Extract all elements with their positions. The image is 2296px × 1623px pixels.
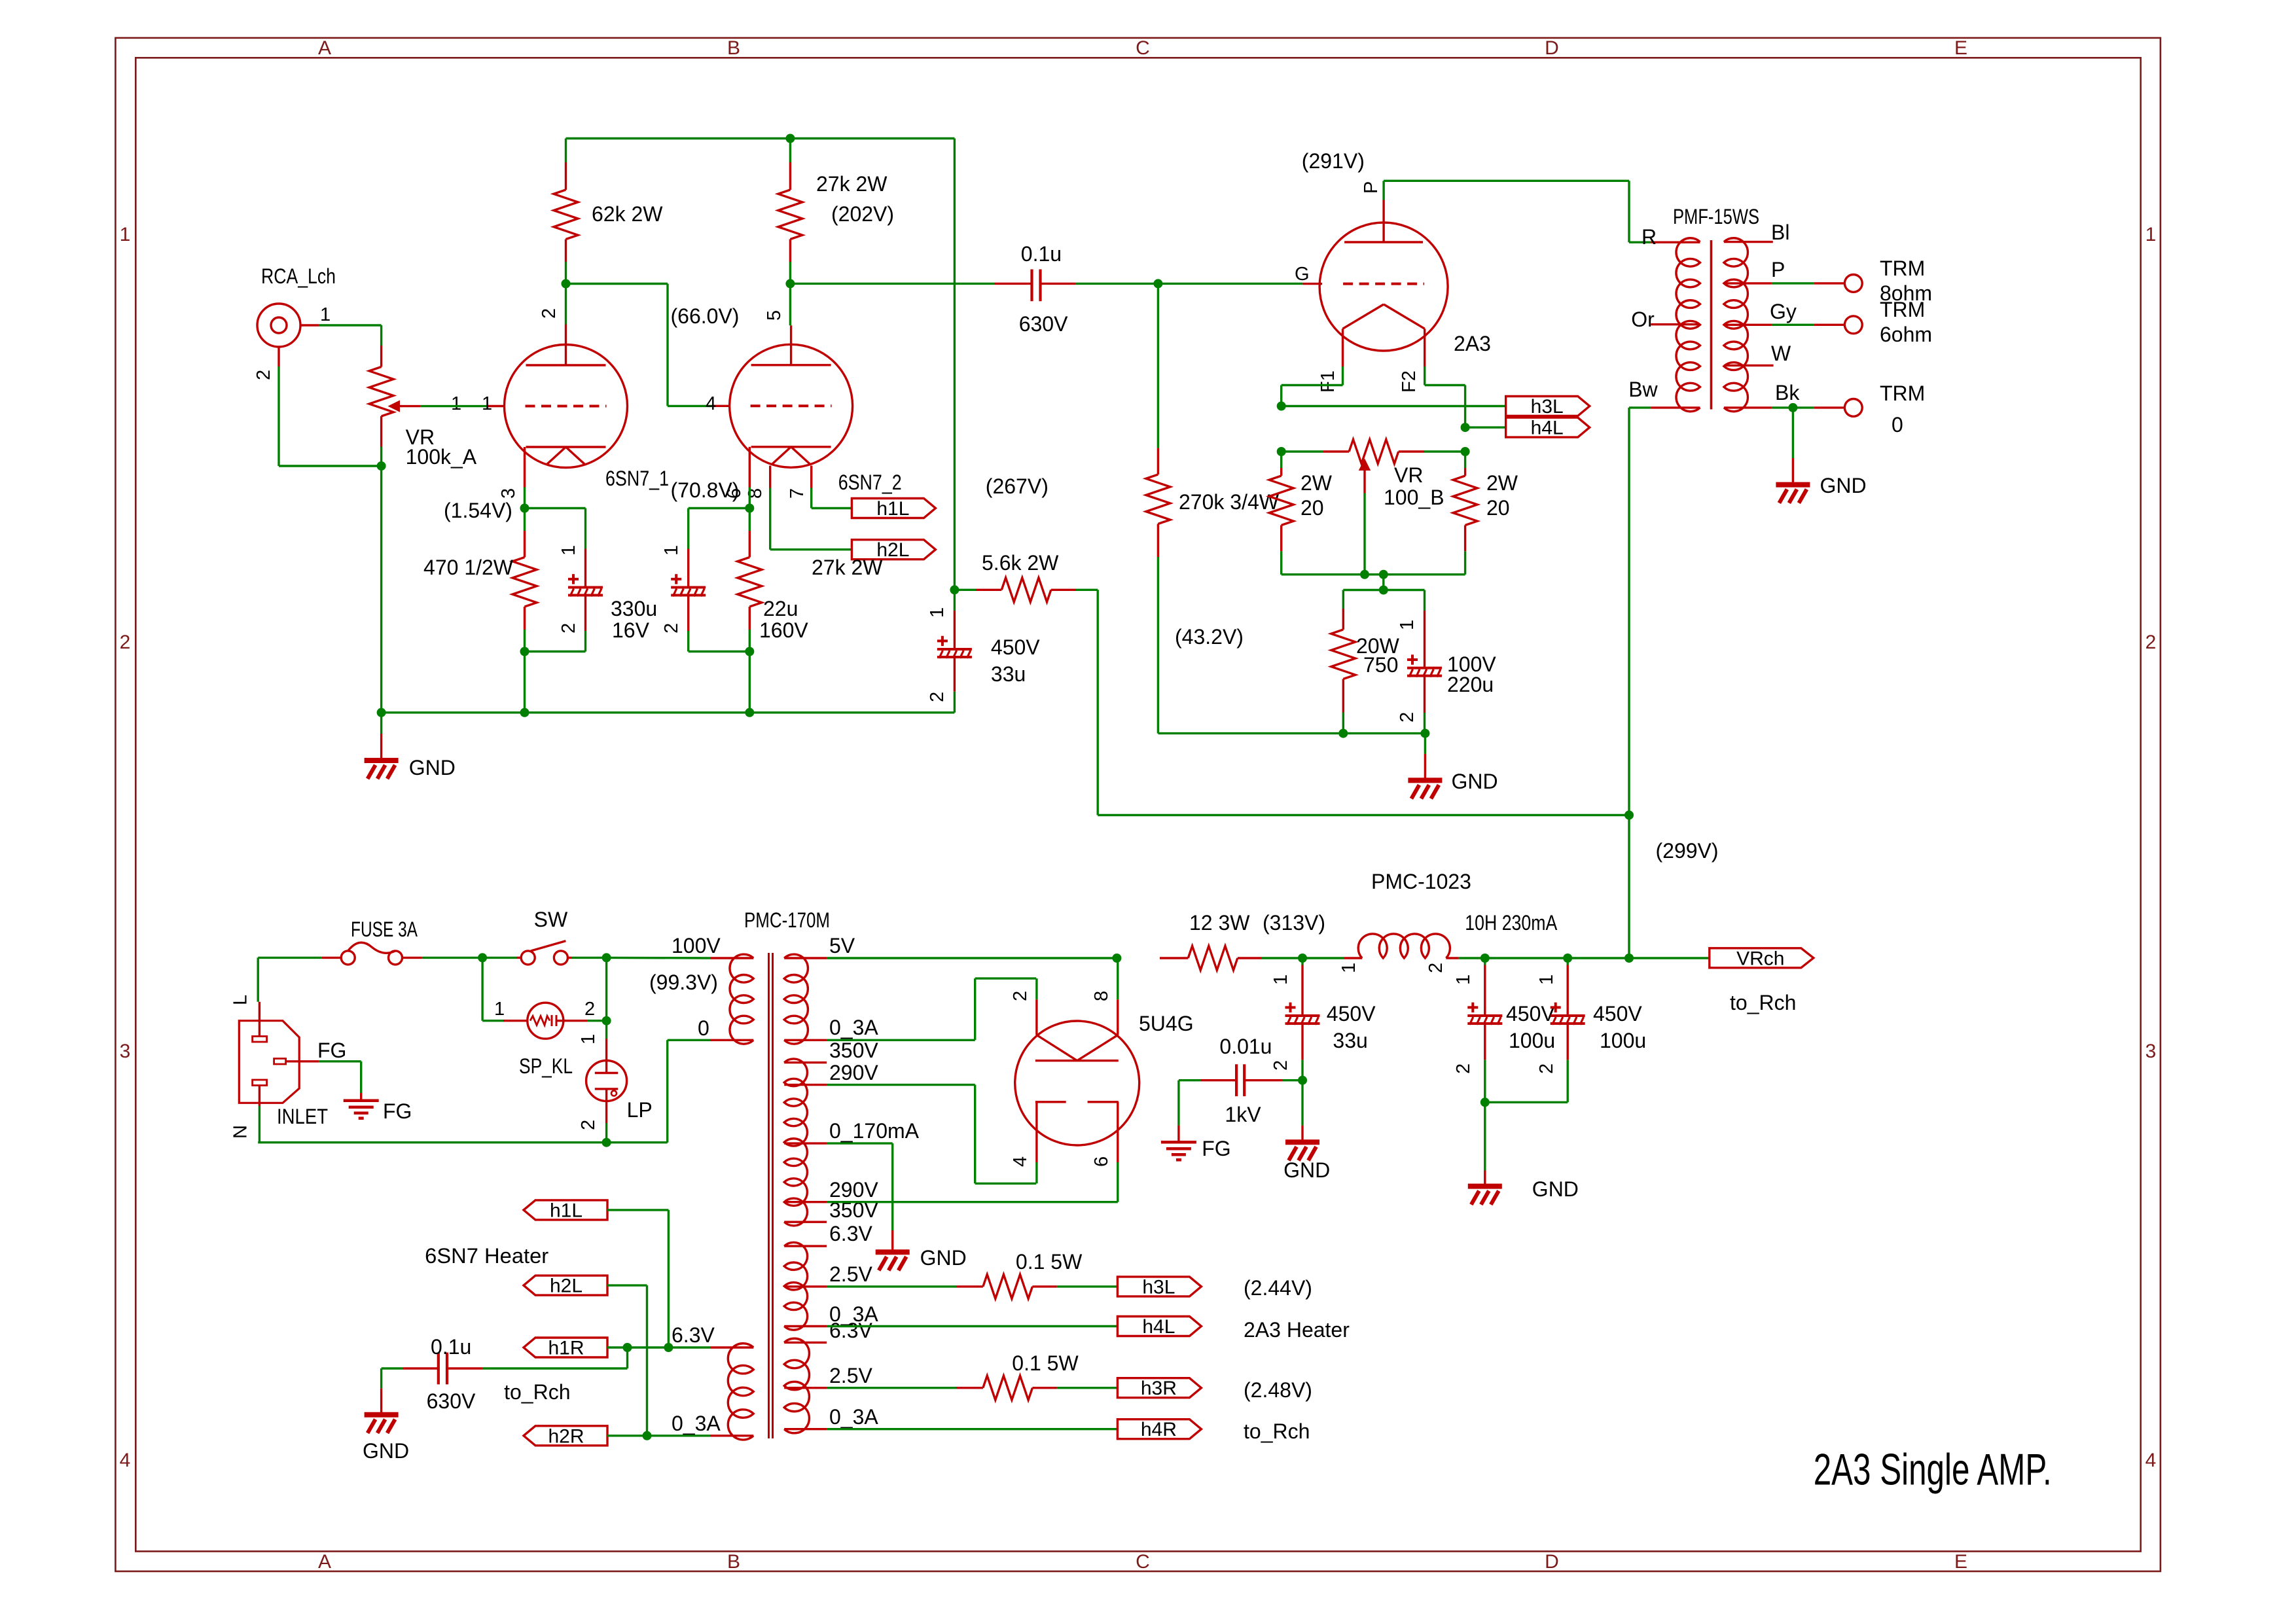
svg-text:Bw: Bw — [1628, 378, 1658, 401]
svg-text:h4L: h4L — [1142, 1316, 1175, 1338]
svg-text:FG: FG — [383, 1099, 412, 1123]
svg-text:(313V): (313V) — [1263, 911, 1325, 935]
wire to h3L — [1282, 405, 1506, 407]
svg-text:TRM: TRM — [1880, 257, 1925, 280]
svg-text:GND: GND — [1283, 1158, 1330, 1182]
wire SPKL branch — [482, 957, 503, 1020]
svg-text:SW: SW — [534, 908, 568, 931]
svg-text:1: 1 — [1338, 963, 1359, 973]
svg-text:Bk: Bk — [1775, 381, 1800, 404]
svg-text:B: B — [727, 37, 740, 59]
capacitor 330u 16V — [525, 508, 658, 652]
svg-text:FG: FG — [1202, 1137, 1230, 1160]
node 33u bottom — [1298, 1076, 1307, 1085]
tube 6SN7_2 — [706, 310, 902, 499]
wire RCA pin2 down — [279, 366, 382, 466]
wire plate1 to 6SN7_2 grid — [566, 284, 713, 406]
svg-text:G: G — [1295, 264, 1310, 285]
wire 5.6k to 299V node — [1098, 590, 1629, 815]
svg-text:33u: 33u — [1333, 1029, 1367, 1052]
tube 5U4G — [1010, 991, 1194, 1167]
port VRch out — [1710, 948, 1814, 969]
svg-text:62k 2W: 62k 2W — [592, 202, 663, 226]
wire 6SN7_2 plate pin — [789, 283, 791, 325]
svg-text:h1L: h1L — [876, 498, 909, 520]
svg-text:1: 1 — [320, 304, 331, 325]
svg-text:6.3V: 6.3V — [672, 1323, 715, 1347]
connector RCA_Lch — [253, 264, 336, 380]
svg-text:330u: 330u — [611, 597, 657, 620]
wire LP to N — [602, 1123, 611, 1147]
svg-text:GND: GND — [363, 1439, 409, 1463]
svg-text:h2R: h2R — [548, 1425, 584, 1447]
svg-text:450V: 450V — [991, 635, 1040, 659]
resistor 27k 2W plate — [778, 139, 894, 284]
svg-text:2: 2 — [1397, 712, 1418, 722]
svg-text:h1R: h1R — [548, 1338, 584, 1359]
ground GND filter — [1468, 1102, 1579, 1204]
lamp LP — [578, 1034, 653, 1130]
svg-text:1: 1 — [1453, 974, 1474, 985]
svg-text:LP: LP — [627, 1098, 653, 1122]
svg-text:to_Rch: to_Rch — [1244, 1419, 1310, 1443]
ground GND Rch cap — [363, 1368, 409, 1463]
svg-text:12 3W: 12 3W — [1189, 911, 1250, 935]
capacitor 33u 450V driver — [927, 590, 1040, 713]
resistor 470 1/2W cathode — [423, 508, 537, 652]
ground GND bias — [1408, 734, 1498, 799]
svg-text:6ohm: 6ohm — [1880, 323, 1932, 346]
label (43.2V) — [1175, 625, 1244, 649]
svg-text:0: 0 — [1892, 413, 1903, 437]
wire P lead to TRM 8ohm — [1724, 258, 1845, 283]
winding 5V rectifier — [784, 934, 878, 1044]
terminal TRM 6ohm — [1844, 298, 1932, 346]
svg-text:Bl: Bl — [1771, 221, 1789, 244]
svg-text:GND: GND — [409, 756, 456, 779]
svg-text:6.3V: 6.3V — [829, 1319, 872, 1342]
svg-text:GND: GND — [1452, 770, 1498, 793]
svg-text:0_3A: 0_3A — [829, 1016, 878, 1039]
svg-text:3: 3 — [120, 1041, 131, 1062]
svg-text:750: 750 — [1363, 653, 1398, 677]
svg-text:Gy: Gy — [1770, 300, 1797, 323]
svg-text:1: 1 — [661, 545, 682, 556]
wire choke out rail — [1480, 954, 1710, 963]
svg-text:L: L — [230, 995, 251, 1005]
svg-text:to_Rch: to_Rch — [504, 1380, 570, 1404]
label (66.0V) — [671, 304, 740, 328]
wire 0_170mA center tap — [827, 1143, 893, 1230]
svg-text:F1: F1 — [1318, 370, 1338, 393]
svg-text:470 1/2W: 470 1/2W — [423, 556, 514, 579]
svg-text:C: C — [1136, 1551, 1150, 1573]
svg-text:6: 6 — [1091, 1156, 1112, 1167]
svg-text:0_170mA: 0_170mA — [829, 1119, 920, 1143]
svg-text:Or: Or — [1631, 308, 1655, 331]
svg-text:6SN7_2: 6SN7_2 — [838, 471, 902, 494]
wire 0_3A to pin2 — [827, 978, 1037, 1040]
wire pin7 to h1L — [812, 488, 852, 508]
top rail left (B+ driver) — [566, 134, 955, 143]
resistor 0.1 5W right — [827, 1351, 1117, 1400]
wire N to transformer 0 — [258, 1040, 711, 1142]
wire grid 2A3 — [1158, 283, 1302, 285]
svg-text:A: A — [318, 1551, 331, 1573]
svg-text:2W: 2W — [1486, 471, 1518, 495]
svg-text:27k 2W: 27k 2W — [812, 556, 883, 579]
node 100u bottom — [1480, 1097, 1490, 1107]
svg-text:0.01u: 0.01u — [1219, 1035, 1272, 1058]
wire AC L top — [258, 953, 711, 962]
label to_Rch B+ — [1730, 991, 1796, 1014]
wire h1R row 6.3V — [607, 1343, 711, 1352]
label to_Rch h4R — [1244, 1419, 1310, 1443]
svg-text:1: 1 — [494, 999, 505, 1020]
resistor 27k 2W cathode — [738, 508, 883, 652]
port h2R in — [524, 1425, 607, 1447]
svg-text:(1.54V): (1.54V) — [444, 499, 512, 522]
ground GND center tap — [876, 1230, 967, 1270]
port h1R in — [524, 1338, 607, 1359]
svg-text:2: 2 — [1426, 963, 1446, 973]
svg-text:(2.44V): (2.44V) — [1244, 1276, 1312, 1300]
svg-text:2: 2 — [120, 632, 131, 653]
svg-text:VRch: VRch — [1736, 948, 1784, 969]
label (70.8V) — [671, 478, 740, 502]
potentiometer VR 100k_A — [369, 346, 477, 469]
resistor 62k 2W — [554, 139, 663, 284]
svg-text:0_3A: 0_3A — [672, 1412, 721, 1435]
svg-text:2W: 2W — [1300, 471, 1333, 495]
wire W lead — [1724, 342, 1791, 365]
svg-text:290V: 290V — [829, 1061, 878, 1084]
terminal TRM 8ohm — [1844, 257, 1932, 305]
port h4L heater — [1117, 1316, 1201, 1338]
capacitor 0.01u 1kV — [1179, 1035, 1302, 1126]
svg-text:160V: 160V — [759, 618, 808, 642]
svg-text:W: W — [1771, 342, 1791, 365]
node coupling out — [1153, 279, 1162, 288]
label 2A3 Heater — [1244, 1318, 1350, 1342]
label 6SN7 Heater — [425, 1244, 548, 1268]
wire bias gnd bus — [1158, 729, 1429, 738]
svg-text:2: 2 — [1270, 1060, 1291, 1071]
svg-text:16V: 16V — [612, 618, 650, 642]
svg-text:D: D — [1545, 1551, 1559, 1573]
label (299V) — [1656, 839, 1719, 863]
tube 2A3 — [1295, 181, 1491, 393]
label (99.3V) — [649, 971, 718, 994]
svg-text:h3L: h3L — [1142, 1276, 1175, 1298]
resistor 2W 20 left — [1269, 452, 1333, 575]
svg-text:2: 2 — [927, 692, 948, 702]
inductor PMC-1023 choke 10H 230mA — [1302, 870, 1558, 973]
ground FG inlet — [344, 1093, 412, 1123]
svg-text:FG: FG — [317, 1039, 346, 1062]
svg-text:1: 1 — [120, 224, 131, 245]
winding heater 6SN7 6.3V — [672, 1323, 753, 1440]
wire h4R row — [827, 1428, 1117, 1430]
port h4R heater — [1117, 1419, 1201, 1440]
potentiometer VR 100_B hum balance — [1282, 440, 1465, 575]
svg-text:2: 2 — [558, 623, 579, 633]
port h1L out — [852, 498, 935, 520]
label (2.44V) — [1244, 1276, 1312, 1300]
wire Bw lead — [1628, 378, 1700, 408]
svg-text:5: 5 — [764, 310, 785, 321]
svg-text:2A3: 2A3 — [1454, 332, 1491, 355]
wire SPKL out — [588, 957, 611, 1039]
node plate2 junction — [785, 279, 795, 288]
svg-text:630V: 630V — [427, 1389, 476, 1413]
wire 299V riser — [1628, 815, 1630, 959]
svg-text:E: E — [1954, 1551, 1967, 1573]
svg-text:0: 0 — [698, 1016, 709, 1040]
title 2A3 Single AMP — [1814, 1445, 2052, 1495]
wire F1 down — [1277, 366, 1343, 411]
wire L pin up — [257, 957, 259, 1001]
svg-text:D: D — [1545, 37, 1559, 59]
svg-text:R: R — [1641, 225, 1657, 249]
port h3R heater — [1117, 1378, 1201, 1399]
svg-text:(66.0V): (66.0V) — [671, 304, 740, 328]
svg-text:E: E — [1954, 37, 1967, 59]
svg-text:450V: 450V — [1593, 1002, 1642, 1026]
capacitor 0.1u 630V coupling — [790, 242, 1158, 336]
svg-text:h3L: h3L — [1531, 396, 1564, 418]
svg-text:INLET: INLET — [277, 1105, 328, 1128]
svg-text:3: 3 — [2145, 1041, 2157, 1062]
svg-text:2: 2 — [578, 1120, 599, 1130]
resistor 5.6k 2W — [954, 551, 1098, 602]
svg-text:7: 7 — [787, 488, 808, 499]
svg-text:2A3 Heater: 2A3 Heater — [1244, 1318, 1350, 1342]
resistor 270k 3/4W — [1146, 283, 1280, 733]
svg-text:2: 2 — [2145, 632, 2157, 653]
wire Bw vertical to 299V — [1628, 408, 1630, 815]
wire 5V to pin8 — [827, 954, 1121, 999]
terminal TRM 0 — [1844, 382, 1925, 437]
svg-text:1kV: 1kV — [1225, 1103, 1261, 1126]
svg-text:1: 1 — [1536, 974, 1557, 985]
wire RCA pin1 to VR top — [319, 325, 382, 346]
svg-text:8: 8 — [1091, 991, 1112, 1001]
label (291V) — [1302, 149, 1365, 173]
svg-text:27k 2W: 27k 2W — [816, 172, 888, 196]
capacitor 0.1u 630V Rch — [382, 1335, 628, 1413]
svg-text:(2.48V): (2.48V) — [1244, 1378, 1312, 1402]
wire bias stub — [1343, 575, 1424, 595]
label (267V) — [986, 474, 1049, 498]
svg-text:2: 2 — [584, 999, 595, 1020]
wire 267V vertical — [950, 139, 959, 595]
wire R lead — [1629, 225, 1700, 249]
svg-text:2: 2 — [1453, 1063, 1474, 1074]
wire GND bus left — [377, 708, 955, 717]
resistor 12 3W — [1160, 911, 1302, 971]
wire FG lead — [317, 1039, 361, 1093]
svg-text:(70.8V): (70.8V) — [671, 478, 740, 502]
svg-text:6SN7 Heater: 6SN7 Heater — [425, 1244, 548, 1268]
capacitor 22u 160V — [661, 508, 808, 652]
switch SW — [517, 908, 571, 965]
port h3L out — [1506, 396, 1590, 418]
svg-text:270k 3/4W: 270k 3/4W — [1179, 490, 1280, 514]
wire 6SN7_1 plate pin — [565, 284, 567, 325]
wire 6SN7_2 cathode pin — [745, 488, 754, 513]
svg-text:1: 1 — [2145, 224, 2157, 245]
svg-text:220u: 220u — [1447, 673, 1494, 696]
svg-text:2.5V: 2.5V — [829, 1262, 872, 1286]
wire VR bottom junction — [377, 447, 386, 713]
svg-text:h1L: h1L — [550, 1200, 583, 1221]
svg-text:100u: 100u — [1509, 1029, 1555, 1052]
svg-text:0.1 5W: 0.1 5W — [1016, 1250, 1083, 1274]
wire Or lead — [1631, 308, 1700, 331]
svg-text:(267V): (267V) — [986, 474, 1049, 498]
connector INLET — [230, 995, 328, 1139]
svg-text:20: 20 — [1486, 496, 1510, 520]
svg-text:C: C — [1136, 37, 1150, 59]
wire h2R row 0_3A — [607, 1435, 711, 1436]
svg-text:GND: GND — [1532, 1177, 1579, 1201]
svg-text:h4R: h4R — [1141, 1419, 1177, 1440]
fuse FUSE 3A — [322, 918, 422, 965]
svg-text:0.1 5W: 0.1 5W — [1012, 1351, 1079, 1375]
svg-text:1: 1 — [578, 1034, 599, 1044]
svg-text:2.5V: 2.5V — [829, 1364, 872, 1387]
svg-text:A: A — [318, 37, 331, 59]
svg-text:VR: VR — [1394, 463, 1423, 487]
winding 2A3 heater R — [784, 1319, 878, 1433]
svg-text:0.1u: 0.1u — [431, 1335, 471, 1359]
svg-text:N: N — [230, 1125, 251, 1139]
svg-text:450V: 450V — [1327, 1002, 1376, 1026]
svg-text:P: P — [1771, 258, 1785, 281]
wire 2A3 plate to transformer R — [1384, 181, 1629, 242]
svg-text:6SN7_1: 6SN7_1 — [605, 467, 669, 490]
ground FG snubber — [1161, 1080, 1231, 1160]
node cathode2 bottom — [745, 647, 754, 717]
svg-text:1: 1 — [1270, 974, 1291, 985]
winding HV 350-0-350 — [784, 1039, 919, 1226]
label (1.54V) — [444, 499, 512, 522]
wire Bl lead — [1724, 221, 1790, 244]
svg-text:FUSE 3A: FUSE 3A — [351, 918, 418, 941]
svg-text:PMC-170M: PMC-170M — [744, 908, 830, 932]
svg-text:5.6k 2W: 5.6k 2W — [982, 551, 1059, 575]
svg-text:2A3 Single AMP.: 2A3 Single AMP. — [1814, 1445, 2052, 1495]
svg-text:F2: F2 — [1399, 370, 1420, 393]
svg-text:2: 2 — [539, 308, 560, 319]
label (2.48V) — [1244, 1378, 1312, 1402]
snubber SP_KL — [494, 999, 595, 1078]
capacitor 100u 450V second — [1485, 958, 1646, 1102]
wire to h4L — [1465, 426, 1506, 428]
resistor 0.1 5W left — [827, 1250, 1117, 1298]
svg-text:4: 4 — [2145, 1450, 2157, 1471]
svg-text:2: 2 — [1536, 1063, 1557, 1074]
svg-text:0_3A: 0_3A — [829, 1405, 878, 1429]
wire h4L row — [827, 1325, 1117, 1327]
svg-text:3: 3 — [498, 488, 519, 499]
svg-text:to_Rch: to_Rch — [1730, 991, 1796, 1014]
svg-text:P: P — [1361, 181, 1382, 194]
svg-text:h4L: h4L — [1531, 418, 1564, 439]
resistor 2W 20 right — [1453, 452, 1518, 575]
wire 6SN7_1 cathode pin — [520, 488, 529, 513]
svg-text:6.3V: 6.3V — [829, 1222, 872, 1245]
ground GND 33u — [1283, 1080, 1330, 1182]
svg-text:8: 8 — [745, 488, 766, 499]
svg-text:TRM: TRM — [1880, 298, 1925, 321]
port h3L heater — [1117, 1276, 1201, 1298]
node 299V — [1624, 811, 1634, 820]
border row numbers — [120, 224, 2157, 1471]
svg-text:4: 4 — [1010, 1156, 1031, 1167]
wire pin8 to h2L — [770, 488, 852, 550]
svg-text:350V: 350V — [829, 1039, 878, 1062]
svg-text:PMC-1023: PMC-1023 — [1371, 870, 1471, 893]
svg-text:630V: 630V — [1019, 312, 1068, 336]
svg-text:(299V): (299V) — [1656, 839, 1719, 863]
winding 2A3 heater L — [784, 1222, 878, 1330]
capacitor 220u 100V — [1397, 590, 1496, 734]
node first filter — [1298, 954, 1307, 963]
wire 290V to pin4 — [827, 1085, 1037, 1184]
svg-text:4: 4 — [706, 393, 716, 414]
wire h2L to 0_3A — [607, 1285, 652, 1440]
wire Gy lead to TRM 6ohm — [1724, 300, 1845, 325]
transformer PMC-170M — [744, 908, 830, 1438]
svg-text:1: 1 — [451, 393, 461, 414]
svg-text:RCA_Lch: RCA_Lch — [261, 264, 336, 288]
label to_Rch heater — [504, 1380, 570, 1404]
label (313V) — [1263, 911, 1325, 935]
svg-text:SP_KL: SP_KL — [519, 1054, 573, 1078]
tube 6SN7_1 — [482, 308, 669, 499]
wire h1L to 6.3V — [607, 1210, 673, 1352]
node cathode1 bottom — [520, 647, 529, 713]
svg-text:20: 20 — [1300, 496, 1324, 520]
node plate1 junction — [562, 279, 571, 289]
ground GND left — [365, 713, 456, 779]
svg-text:2: 2 — [1010, 991, 1031, 1001]
capacitor 100u 450V first — [1453, 958, 1555, 1102]
svg-text:100u: 100u — [1600, 1029, 1646, 1052]
svg-text:1: 1 — [482, 393, 492, 414]
svg-text:(43.2V): (43.2V) — [1175, 625, 1244, 649]
wire 290V2 to pin6 — [827, 1162, 1118, 1202]
svg-text:(99.3V): (99.3V) — [649, 971, 718, 994]
svg-text:0.1u: 0.1u — [1021, 242, 1062, 266]
transformer PMF-15WS — [1673, 205, 1759, 412]
capacitor 33u 450V PS — [1270, 958, 1376, 1080]
port h2L in — [524, 1275, 607, 1297]
svg-text:100_B: 100_B — [1384, 486, 1444, 509]
wire Bk lead to TRM 0 — [1724, 381, 1845, 412]
svg-text:100V: 100V — [672, 934, 721, 957]
svg-text:2: 2 — [253, 370, 274, 380]
node hum pot left — [1277, 447, 1286, 456]
svg-text:TRM: TRM — [1880, 382, 1925, 405]
border column letters top — [318, 37, 1967, 1573]
svg-text:(202V): (202V) — [831, 202, 894, 226]
ground GND speaker — [1776, 408, 1866, 503]
svg-text:5V: 5V — [829, 934, 855, 957]
winding primary 100V — [672, 934, 753, 1044]
